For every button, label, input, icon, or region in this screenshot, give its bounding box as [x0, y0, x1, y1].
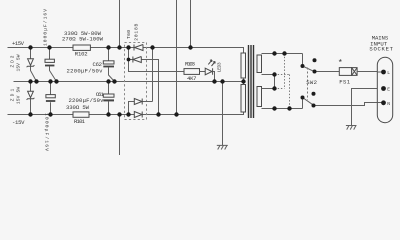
capacitor C61 bottom plate: [103, 99, 114, 101]
wire C61 leads: [108, 82, 110, 115]
wire off-page top left: [119, 0, 121, 48]
svg-text:+15V: +15V: [12, 40, 25, 47]
node 0V C62 lead: [112, 79, 116, 83]
capacitor C61 top plate: [103, 94, 114, 97]
transformer secondary winding top: [241, 53, 246, 78]
svg-text:2018B: 2018B: [134, 23, 140, 40]
transformer secondary winding bottom: [241, 85, 246, 113]
transformer primary winding 2: [257, 87, 262, 107]
svg-text:R103: R103: [185, 61, 195, 68]
node -15V offpage: [117, 112, 121, 116]
node W2 top: [272, 86, 276, 90]
wire primary top: [262, 53, 303, 55]
pin N: [381, 100, 386, 105]
switch SW2 pole 2: [303, 98, 384, 109]
node SW2 pole2 right: [312, 104, 316, 108]
node +15V C62: [106, 45, 110, 49]
wire off-page AC2 riser: [176, 0, 178, 115]
wire C63 leads: [50, 48, 57, 82]
wire primary bottom: [262, 108, 303, 110]
switch SW2 pole 1: [303, 54, 340, 72]
diode D4: [134, 112, 142, 118]
node SW2 pole1 right: [313, 70, 317, 74]
svg-text:2200μF/50v: 2200μF/50v: [67, 67, 104, 74]
node primary bottom 1: [272, 106, 276, 110]
wire C62 leads: [109, 48, 115, 82]
diode D2: [133, 57, 141, 63]
svg-text:15V 5W: 15V 5W: [16, 54, 22, 71]
wire ZD2 leads: [31, 48, 37, 82]
node AC1 D3 riser: [150, 45, 154, 49]
wire D2 jumper and feed: [129, 48, 185, 115]
node 0V LED: [212, 79, 216, 83]
node SW2 pole1 open: [313, 58, 317, 62]
wire LED cathode to 0V: [213, 72, 215, 82]
capacitor C63 bottom plate: [45, 65, 54, 67]
diode D3: [134, 99, 142, 105]
svg-text:E: E: [387, 87, 390, 93]
node D2 cathode: [127, 58, 131, 62]
wire 0V rail: [14, 81, 244, 83]
node 0V cap top: [48, 79, 52, 83]
node -15V ZD1: [28, 112, 32, 116]
svg-text:L: L: [387, 70, 390, 76]
fuse FS1 body: [339, 68, 351, 76]
svg-text:T60: T60: [126, 30, 132, 39]
svg-text:SOCKET: SOCKET: [369, 46, 393, 53]
zener ZD1: [27, 91, 35, 100]
node 0V center tap: [241, 79, 245, 83]
node SW2 pole2 left: [301, 96, 305, 100]
node +15V cap: [47, 45, 51, 49]
node 0V cap lead: [54, 79, 58, 83]
svg-text:1000μF/16V: 1000μF/16V: [43, 9, 49, 46]
svg-text:ZD2: ZD2: [10, 55, 16, 67]
mains input socket body: [377, 57, 392, 122]
svg-text:FS1: FS1: [339, 78, 350, 85]
transformer primary winding 1: [257, 55, 262, 73]
svg-text:*: *: [338, 58, 343, 68]
wire -15V / AC2 rail: [8, 112, 244, 115]
capacitor C64 top plate: [46, 95, 55, 98]
svg-text:15V 5W: 15V 5W: [16, 87, 22, 105]
wire E pin to earth: [346, 89, 384, 130]
wire C64 leads: [50, 82, 52, 115]
svg-text:R101: R101: [74, 118, 86, 125]
node 0V C62: [106, 79, 110, 83]
node +15V D2 jumper: [126, 45, 130, 49]
diode D1: [134, 45, 143, 51]
svg-text:SW2: SW2: [306, 79, 317, 86]
svg-text:330Ω 5W: 330Ω 5W: [66, 104, 90, 111]
node -15V D3 jumper: [126, 112, 130, 116]
capacitor C63 top plate: [45, 59, 54, 62]
node 0V ZD2 lead: [34, 79, 38, 83]
pin E: [381, 86, 386, 91]
node AC1 offpage: [188, 45, 192, 49]
LED LED3: [205, 68, 212, 75]
wire voltage links dotted: [275, 54, 290, 109]
svg-text:-15V: -15V: [12, 119, 25, 126]
svg-text:N: N: [387, 101, 390, 107]
node 0V ZD2: [28, 79, 32, 83]
wire R103 to LED: [200, 71, 206, 73]
capacitor C62 top plate: [103, 61, 114, 64]
node +15V zener: [28, 45, 32, 49]
zener ZD2: [27, 59, 35, 67]
node primary top 2: [282, 51, 286, 55]
wire fuse to L pin: [357, 71, 383, 73]
wire off-page bottom: [119, 115, 121, 156]
node primary bottom 2: [287, 106, 291, 110]
svg-text:ZD1: ZD1: [10, 89, 16, 102]
switch SW2 link dashed: [307, 68, 309, 101]
resistor R102: [73, 45, 90, 50]
wire off-page AC1 riser: [190, 0, 192, 48]
wire series link: [274, 75, 276, 89]
node AC2 D2: [156, 112, 160, 116]
node AC2 offpage: [174, 112, 178, 116]
node SW2 pole1 left: [301, 64, 305, 68]
transformer core: [249, 45, 254, 118]
capacitor C62 bottom plate: [103, 66, 114, 68]
svg-text:LED3: LED3: [217, 62, 223, 72]
LED arrows: [208, 60, 215, 66]
node 0V ground: [220, 79, 224, 83]
wire N pin stub: [377, 102, 383, 104]
svg-text:1000μF/16V: 1000μF/16V: [43, 113, 49, 151]
wire +15V rail: [8, 48, 244, 54]
node W1 bottom: [272, 72, 276, 76]
dashed box bridge rectifier: [125, 43, 147, 120]
capacitor C64 bottom plate: [46, 100, 55, 102]
wire L pin stub: [377, 71, 383, 73]
fuse FS1 x-box: [352, 68, 357, 76]
wire ZD1 leads: [30, 82, 32, 115]
wire primary W2 top: [262, 88, 275, 90]
node SW2 pole2 open: [312, 92, 316, 96]
resistor R101: [73, 112, 89, 117]
resistor R103: [184, 69, 200, 75]
node -15V cap: [48, 112, 52, 116]
pin L: [381, 70, 386, 75]
node primary top 1: [272, 51, 276, 55]
node +15V offpage: [117, 45, 121, 49]
svg-text:270Ω 5W-100W: 270Ω 5W-100W: [62, 36, 104, 43]
wire primary W1 bottom: [262, 74, 275, 76]
wire center tap: [243, 78, 245, 85]
wire D3 cathode riser: [129, 48, 153, 115]
node -15V C61: [106, 112, 110, 116]
svg-text:4K7: 4K7: [187, 75, 197, 82]
ground 0V earth: [217, 82, 228, 150]
svg-text:R102: R102: [75, 51, 88, 58]
